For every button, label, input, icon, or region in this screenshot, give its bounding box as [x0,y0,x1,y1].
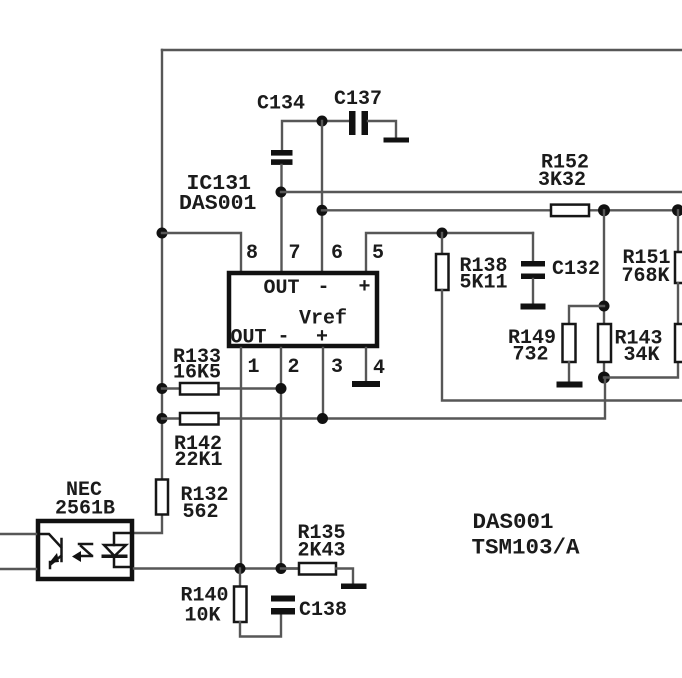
wire pin6 vertical [321,121,323,271]
resistor R151 [675,210,682,283]
capacitor C132 [521,233,545,304]
opto LED [104,533,129,567]
resistor R140 [234,569,247,623]
node R138 top junction [437,228,448,239]
wire R142 net long [162,378,605,419]
node R152 / R151 column junction [672,204,682,216]
wire C134 bottom to pin7 [280,165,282,271]
node R140 top junction [235,563,246,574]
wire pin5 net to C132 [366,233,533,271]
node R143 bottom junction [598,372,610,384]
svg-text:34K: 34K [624,344,660,367]
resistor right edge lower (cut off) [675,283,682,362]
svg-text:1: 1 [248,356,260,379]
ground for C137 [384,138,410,143]
wire opto right bottom net [134,567,299,569]
wire pin2 vertical [280,348,282,569]
ground for pin4 [352,381,380,387]
wire R149 bottom stub [568,362,570,381]
wire left bus [134,50,162,533]
node pin3 / R142 net junction [317,413,328,424]
wire pin1 vertical [240,348,242,569]
resistor R135 [281,563,353,583]
svg-text:-: - [318,276,330,299]
ground for R149 [557,382,583,388]
resistor R133 [180,383,219,395]
wire C134 top net [282,121,350,150]
wire opto left pins [0,534,36,569]
svg-text:3: 3 [331,356,343,379]
node C138 top junction [276,563,287,574]
svg-text:2: 2 [288,356,300,379]
svg-text:OUT: OUT [264,277,300,300]
capacitor C137 [349,111,368,135]
svg-text:+: + [316,326,328,349]
wire R149 top link [569,306,604,324]
wire long rail y192 [281,191,682,193]
svg-text:562: 562 [183,501,219,524]
svg-text:5K11: 5K11 [460,272,508,295]
svg-text:6: 6 [331,242,343,265]
svg-text:TSM103/A: TSM103/A [472,535,581,561]
svg-text:OUT: OUT [231,327,267,350]
wire bottom right link [604,362,678,378]
resistor R138 [436,233,449,290]
svg-text:-: - [278,326,290,349]
resistor R143 [598,324,611,362]
optocoupler box NEC 2561B [38,521,132,579]
capacitor C138 [271,596,295,615]
wire pin4 stub [365,348,367,381]
opto light arrow [79,544,92,556]
svg-text:7: 7 [289,242,301,265]
wire R143 column [603,210,605,377]
svg-text:DAS001: DAS001 [179,192,256,216]
svg-text:2561B: 2561B [55,498,115,521]
svg-text:4: 4 [373,357,385,380]
svg-text:C132: C132 [552,258,600,281]
svg-text:768K: 768K [622,265,670,288]
node bus-pin8 junction [157,228,168,239]
wire R152 rail [322,209,682,211]
svg-text:C134: C134 [257,93,305,116]
node C134/C137/pin6 junction [317,116,328,127]
svg-text:16K5: 16K5 [173,362,221,385]
capacitor C134 [271,150,293,165]
wire pin3 vertical [322,348,324,419]
wire R140 bottom to C138 bottom [240,615,281,637]
svg-text:+: + [359,276,371,299]
svg-text:C138: C138 [299,599,347,622]
wire top rail [162,49,682,51]
svg-text:8: 8 [246,242,258,265]
svg-text:10K: 10K [185,605,221,628]
node R152 / R143 column junction [598,204,610,216]
resistor R149 [563,324,576,362]
wire C137 right to ground [368,121,396,137]
svg-text:DAS001: DAS001 [473,509,554,535]
node R142 left junction [157,413,168,424]
wire R138 bottom long rail y400 [442,290,682,401]
svg-text:5: 5 [372,242,384,265]
IC U131 box [229,273,377,346]
wire R133 net [162,387,281,389]
resistor R132 [156,480,168,515]
node R133 left junction [157,383,168,394]
node R149/R143 junction [599,301,610,312]
resistor R142 [180,413,219,425]
resistor R152 [551,205,589,217]
svg-text:3K32: 3K32 [538,169,586,192]
svg-text:22K1: 22K1 [175,449,223,472]
node pin6 / R152 rail junction [317,205,328,216]
ground for R135 [341,584,367,590]
node pin7 / out wire junction [276,187,287,198]
opto phototransistor [41,534,62,568]
svg-text:2K43: 2K43 [298,540,346,563]
node R133 right / pin2 junction [276,383,287,394]
svg-text:C137: C137 [334,88,382,111]
svg-text:732: 732 [513,344,549,367]
wire pin8 connection [162,233,241,271]
ground bar for C132 [521,304,546,310]
